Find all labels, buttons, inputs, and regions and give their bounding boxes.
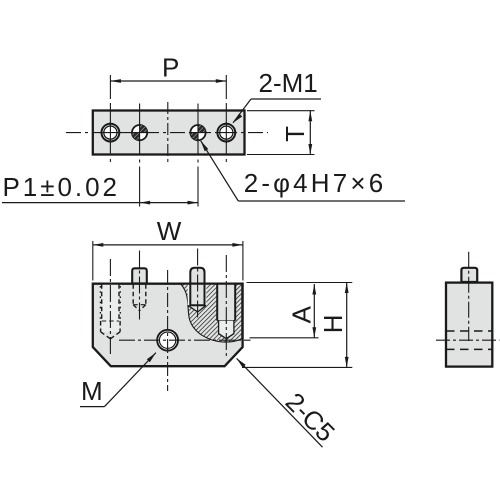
hole4 bore lower with drill point [219,321,234,339]
label M with leader [80,353,156,407]
vertical centerline hole1 / P extension [109,75,111,165]
hole crosshairs (top view) [100,122,237,143]
tapped hole M1 right (top view) [217,124,235,142]
side view hidden hole lines [446,330,492,332]
svg-text:2-φ4H7×6: 2-φ4H7×6 [244,168,384,198]
svg-text:H: H [318,314,348,333]
svg-text:M: M [81,376,103,406]
hole3 bore (white) in section [188,284,207,312]
side view pin stud [461,268,477,282]
label 2-M1 with leader [233,68,321,123]
horizontal centerline through M hole (front) [119,339,251,341]
side hole M (front view circle) [157,330,178,351]
dowel hole left (top view, quadrant filled) [132,125,147,140]
mid vertical centerline (front) [167,270,169,391]
svg-text:P: P [162,53,179,83]
horizontal centerline of top view [66,132,268,134]
svg-text:A: A [287,305,317,323]
front view block body [93,284,243,367]
vertical mid centerline of top view [167,102,169,164]
dimension P [110,53,226,83]
side view vertical centerline [468,252,470,341]
vertical centerline hole3 / P1 extension [197,104,199,210]
side view horizontal centerline [436,339,500,341]
dimension P1±0.02 [2,172,198,205]
vertical centerline hole4 / P extension [225,75,227,165]
centerline pin3 (front) [197,249,199,321]
hole4 bore upper (gray slot in section) [217,284,235,320]
dimension T [247,111,315,155]
dimension A [250,284,319,338]
centerline hole4 (front) [225,255,227,357]
svg-text:T: T [280,126,310,142]
svg-text:2-M1: 2-M1 [259,68,318,98]
label 2-φ4H7×6 with leader [201,141,405,201]
centerline pin2 (front) [139,251,141,323]
dimension W [93,216,243,281]
top view body plate [93,111,245,155]
label 2-C5 with leader [237,358,341,447]
dimension H [242,283,352,368]
hidden tapped hole M1 left (front view) [102,284,119,332]
dowel hole right (top view, quadrant filled) [190,125,205,140]
dowel pin left stud (front view) [132,268,147,283]
broken-out section hatch region [181,284,242,342]
side view body [446,283,492,367]
dowel pin left hidden part (front view) [133,284,146,310]
tapped hole M1 left (top view) [102,124,120,142]
svg-text:W: W [157,216,182,246]
vertical centerline hole2 / P1 extension [139,104,141,210]
centerline hole1 (front) [109,259,111,356]
dowel pin right (front view, in section) [190,268,204,306]
block top edge redraw [93,282,243,284]
